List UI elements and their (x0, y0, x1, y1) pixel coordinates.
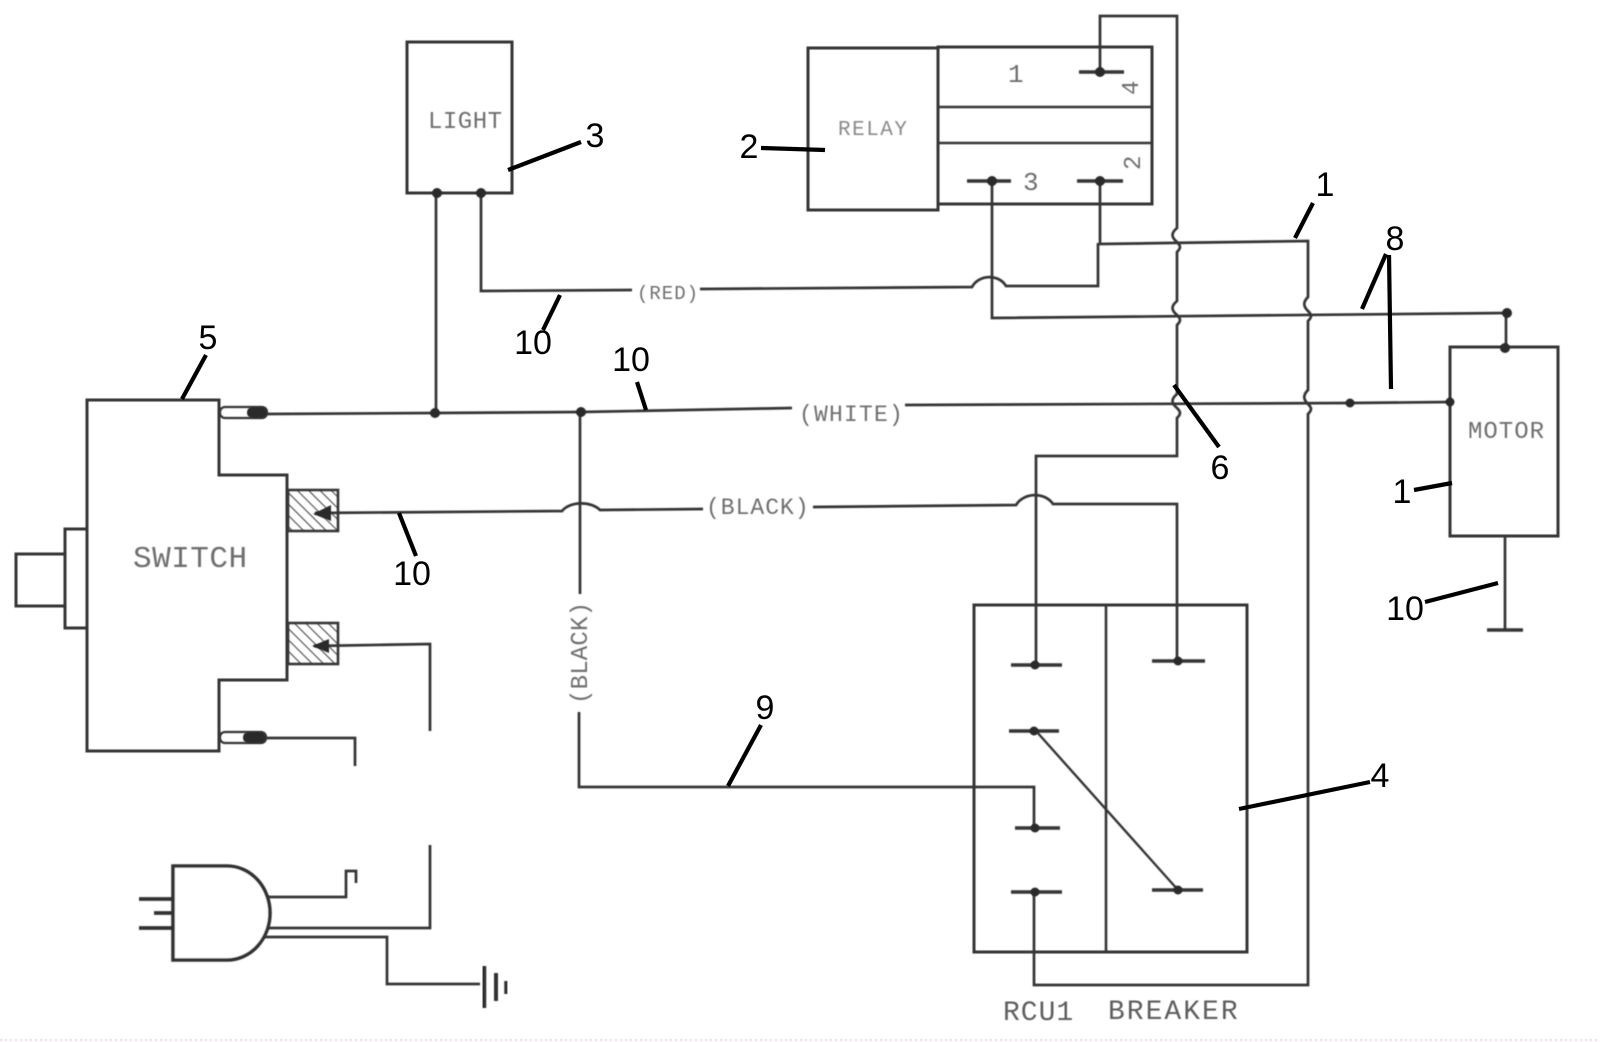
svg-text:10: 10 (514, 324, 552, 362)
svg-text:(BLACK): (BLACK) (706, 495, 810, 521)
svg-text:10: 10 (1386, 590, 1424, 628)
svg-text:6: 6 (1211, 449, 1230, 487)
svg-text:10: 10 (393, 555, 431, 593)
svg-text:4: 4 (1119, 81, 1146, 95)
svg-text:(WHITE): (WHITE) (799, 402, 904, 428)
svg-text:4: 4 (1371, 757, 1390, 795)
svg-text:3: 3 (1023, 168, 1039, 198)
svg-text:SWITCH: SWITCH (133, 542, 248, 577)
svg-text:RELAY: RELAY (838, 119, 909, 142)
svg-text:1: 1 (1393, 473, 1412, 511)
svg-text:(BLACK): (BLACK) (568, 602, 595, 704)
svg-text:9: 9 (756, 689, 775, 727)
svg-text:(RED): (RED) (637, 283, 699, 305)
svg-text:MOTOR: MOTOR (1468, 419, 1545, 446)
svg-text:RCU1: RCU1 (1003, 998, 1074, 1029)
svg-text:LIGHT: LIGHT (428, 109, 503, 136)
svg-text:8: 8 (1386, 220, 1405, 258)
svg-text:5: 5 (199, 319, 218, 357)
svg-text:2: 2 (1121, 156, 1148, 170)
svg-text:1: 1 (1316, 166, 1335, 204)
svg-text:1: 1 (1008, 60, 1024, 90)
svg-text:3: 3 (586, 117, 605, 155)
svg-text:10: 10 (612, 341, 650, 379)
svg-text:2: 2 (740, 128, 759, 166)
svg-text:BREAKER: BREAKER (1108, 997, 1240, 1028)
